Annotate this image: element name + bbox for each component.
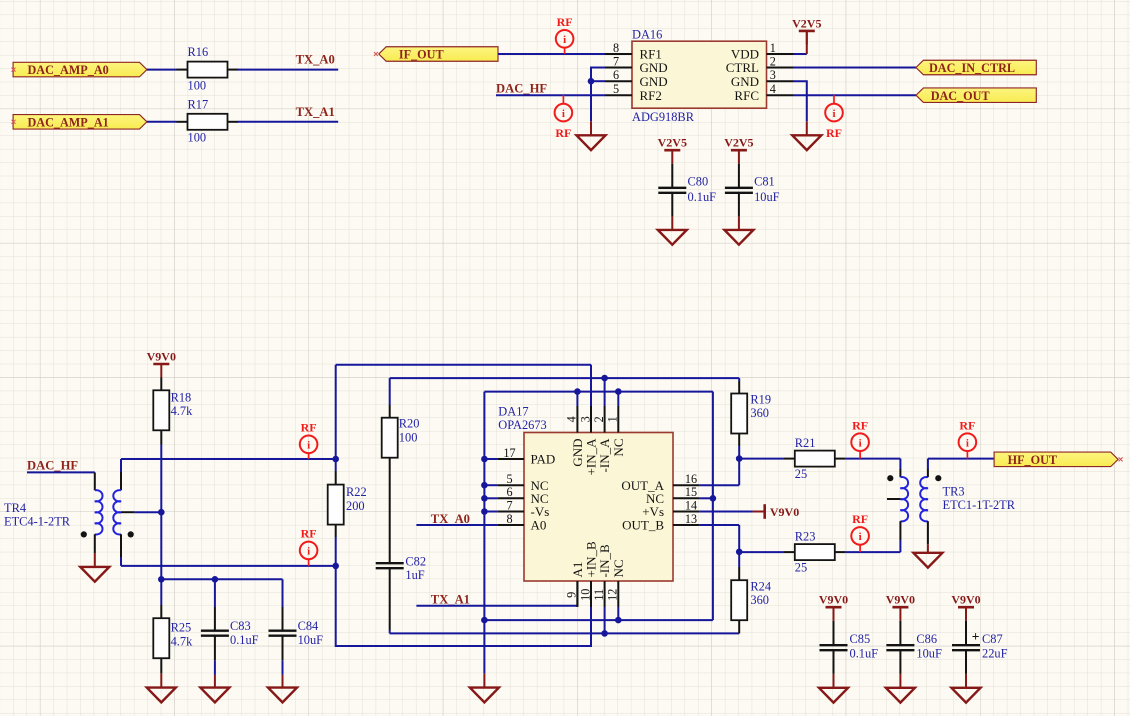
svg-text:25: 25	[795, 561, 807, 575]
wire pin10	[590, 607, 592, 646]
wire	[389, 378, 391, 405]
svg-text:C84: C84	[298, 619, 319, 633]
wire	[282, 660, 284, 675]
power V9V0	[819, 593, 848, 621]
ground at TR4	[80, 567, 109, 582]
svg-text:V9V0: V9V0	[819, 593, 848, 607]
svg-text:OPA2673: OPA2673	[498, 418, 546, 432]
RF directive on DAC_HF wire	[555, 95, 573, 140]
lead	[738, 381, 740, 394]
svg-text:i: i	[859, 531, 862, 543]
polarity dot TR4 secondary	[128, 531, 134, 537]
lead	[335, 471, 337, 485]
port origin marker	[374, 52, 378, 56]
svg-text:3: 3	[770, 68, 776, 82]
junction center-tap node	[158, 509, 165, 516]
pin	[835, 458, 846, 460]
pin 2 CTRL	[767, 67, 794, 69]
capacitor C87	[952, 645, 980, 650]
power V9V0	[147, 349, 176, 377]
lead	[160, 378, 162, 391]
wire	[335, 459, 337, 471]
lead	[671, 164, 673, 188]
lead	[738, 434, 740, 447]
pin 17 PAD	[498, 458, 524, 460]
capacitor C83	[201, 631, 229, 636]
lead	[282, 636, 284, 660]
junction	[481, 508, 488, 515]
junction pin1	[615, 388, 622, 395]
svg-text:V2V5: V2V5	[792, 16, 821, 30]
capacitor C86	[886, 645, 914, 650]
wire	[590, 121, 592, 135]
svg-text:R21: R21	[795, 436, 816, 450]
lead	[927, 544, 929, 553]
svg-text:DAC_HF: DAC_HF	[496, 81, 547, 95]
svg-text:V9V0: V9V0	[147, 349, 176, 363]
wire	[899, 459, 901, 469]
transformer TR4 secondary winding	[113, 490, 121, 534]
wire pin12	[617, 607, 619, 620]
svg-text:R19: R19	[750, 393, 771, 407]
pin 10 +IN_B	[590, 581, 592, 607]
wire	[576, 392, 578, 406]
svg-text:C86: C86	[916, 632, 937, 646]
pin 1 NC	[617, 406, 619, 433]
ground at R25	[147, 688, 176, 703]
RF directive on lower rail	[300, 527, 318, 566]
resistor R17	[188, 114, 228, 130]
lead	[738, 567, 740, 580]
svg-text:V2V5: V2V5	[658, 136, 687, 150]
wire	[120, 459, 122, 472]
power V2V5	[658, 136, 687, 164]
svg-text:16: 16	[685, 472, 697, 486]
wire	[147, 121, 177, 123]
svg-text:i: i	[832, 108, 835, 120]
svg-text:i: i	[966, 437, 969, 449]
resistor R18	[153, 390, 169, 430]
pin 11 -IN_B	[604, 581, 606, 607]
svg-text:8: 8	[506, 512, 512, 526]
svg-text:10uF: 10uF	[754, 190, 780, 204]
svg-text:RF: RF	[555, 126, 571, 140]
pin 5 NC	[498, 484, 524, 486]
lead	[899, 651, 901, 674]
lead	[899, 621, 901, 646]
lead	[214, 675, 216, 688]
RF directive on HF_OUT wire	[959, 418, 977, 458]
svg-text:22uF: 22uF	[982, 646, 1008, 660]
svg-text:10uF: 10uF	[916, 646, 942, 660]
junction OUT_A node	[736, 455, 743, 462]
svg-text:360: 360	[750, 406, 769, 420]
transformer TR4 pin	[94, 472, 96, 490]
junction OUT_B node	[736, 549, 743, 556]
capacitor C82	[376, 563, 404, 568]
lead	[389, 568, 391, 630]
wire	[846, 551, 901, 553]
pin 3 GND	[767, 80, 794, 82]
wire	[214, 579, 216, 607]
svg-text:25: 25	[795, 467, 807, 481]
pin 8 RF1	[605, 53, 632, 55]
wire rail to R22 top	[121, 458, 336, 460]
svg-text:DAC_AMP_A1: DAC_AMP_A1	[28, 115, 109, 129]
pin 6 NC	[498, 497, 524, 499]
svg-text:ADG918BR: ADG918BR	[632, 110, 695, 124]
wire	[389, 630, 391, 633]
svg-text:C83: C83	[230, 619, 251, 633]
ground at C80	[658, 230, 687, 245]
transformer TR3 pin	[899, 469, 901, 477]
port DAC_AMP_A1	[13, 115, 147, 130]
pin 9 A1	[576, 581, 578, 607]
svg-text:C82: C82	[405, 554, 426, 568]
capacitor C85	[820, 645, 848, 650]
lead	[389, 405, 391, 418]
capacitor C84	[269, 631, 297, 636]
svg-text:PAD: PAD	[531, 452, 556, 467]
svg-text:R23: R23	[795, 530, 816, 544]
wire R18 to divider node	[160, 445, 162, 580]
svg-text:14: 14	[685, 498, 697, 512]
power V9V0	[951, 593, 980, 621]
wire	[147, 69, 177, 71]
svg-text:0.1uF: 0.1uF	[850, 646, 879, 660]
svg-text:11: 11	[592, 589, 606, 601]
RF directive on R23 wire	[851, 512, 869, 552]
pin	[228, 121, 239, 123]
wire to R21	[739, 458, 784, 460]
lead	[833, 674, 835, 688]
svg-text:0.1uF: 0.1uF	[230, 633, 259, 647]
lead	[738, 193, 740, 216]
transformer TR3 pin	[927, 469, 929, 477]
svg-text:RF: RF	[959, 418, 975, 432]
lead	[965, 621, 967, 646]
wire OUT_A	[700, 484, 740, 486]
ground at C83	[200, 688, 229, 703]
svg-text:1uF: 1uF	[405, 568, 424, 582]
wire pin stub	[484, 511, 497, 513]
resistor R22	[328, 485, 344, 525]
transformer TR3 pin	[927, 521, 929, 544]
ground at DA16 pins 6-7	[577, 135, 606, 150]
svg-text:5: 5	[613, 82, 619, 96]
wire TX_A1	[238, 121, 338, 123]
wire TX_A0	[416, 524, 497, 526]
svg-text:RF: RF	[301, 420, 317, 434]
svg-text:i: i	[859, 437, 862, 449]
pin	[835, 551, 846, 553]
lead	[160, 658, 162, 673]
wire	[927, 459, 929, 469]
resistor R19	[731, 394, 747, 434]
ground at C84	[268, 688, 297, 703]
lead	[282, 607, 284, 631]
lead	[738, 164, 740, 188]
svg-text:+: +	[972, 629, 980, 644]
svg-text:200: 200	[346, 499, 365, 513]
svg-text:RFC: RFC	[734, 88, 759, 103]
svg-text:DAC_IN_CTRL: DAC_IN_CTRL	[929, 61, 1015, 75]
pin	[784, 551, 795, 553]
transformer TR3 secondary winding	[920, 477, 928, 521]
pin	[228, 69, 239, 71]
junction pin15	[710, 495, 717, 502]
svg-text:100: 100	[188, 78, 207, 92]
wire to R25	[160, 579, 162, 605]
svg-text:DA17: DA17	[498, 405, 528, 419]
lead	[160, 673, 162, 687]
svg-text:C85: C85	[850, 632, 871, 646]
port origin marker	[1119, 457, 1123, 461]
wire	[483, 620, 485, 673]
junction	[481, 482, 488, 489]
port IF_OUT	[379, 47, 498, 62]
polarity dot TR4 primary	[81, 531, 87, 537]
svg-text:NC: NC	[611, 439, 626, 457]
transformer TR3 primary winding	[900, 477, 908, 521]
lead	[738, 216, 740, 230]
svg-text:6: 6	[613, 68, 619, 82]
pin 12 NC	[617, 581, 619, 607]
ground at C81	[724, 230, 753, 245]
svg-text:RF: RF	[852, 418, 868, 432]
wire ground net under IC	[484, 619, 713, 621]
svg-text:i: i	[563, 34, 566, 46]
junction R22 top	[332, 456, 339, 463]
svg-text:6: 6	[506, 485, 512, 499]
wire +IN_A net	[336, 364, 591, 366]
wire to HF_OUT	[928, 458, 994, 460]
svg-text:1: 1	[606, 416, 620, 422]
junction pin12	[615, 617, 622, 624]
svg-text:ETC1-1T-2TR: ETC1-1T-2TR	[943, 498, 1016, 512]
wire	[738, 525, 740, 552]
wire pin6 stub	[591, 80, 605, 82]
power V9V0	[886, 593, 915, 621]
wire ground net vertical	[483, 392, 485, 620]
wire	[738, 552, 740, 567]
svg-text:DA16: DA16	[632, 27, 662, 41]
svg-text:4: 4	[565, 416, 579, 422]
ic DA16 body	[632, 41, 767, 108]
wire	[335, 537, 337, 566]
junction rail	[158, 576, 165, 583]
svg-text:8: 8	[613, 41, 619, 55]
wire	[806, 31, 808, 54]
lead R20 to C82	[389, 458, 391, 564]
resistor R23	[795, 544, 835, 560]
ground at TR3	[913, 553, 942, 568]
svg-text:IF_OUT: IF_OUT	[399, 48, 444, 62]
wire +Vs	[700, 511, 753, 513]
svg-text:i: i	[307, 440, 310, 452]
lead	[160, 605, 162, 618]
wire TX_A1	[416, 605, 577, 607]
ground at C85	[819, 688, 848, 703]
pin 8 A0	[498, 524, 524, 526]
transformer TR3 center tap stub	[887, 498, 900, 500]
wire RFC to port	[794, 94, 917, 96]
junction pin11	[601, 630, 608, 637]
pin 15 NC	[673, 497, 700, 499]
svg-text:RF: RF	[301, 527, 317, 541]
svg-text:RF: RF	[826, 126, 842, 140]
pin	[784, 458, 795, 460]
svg-text:100: 100	[399, 431, 418, 445]
wire	[806, 121, 808, 135]
wire OUT_B	[700, 524, 740, 526]
svg-text:A0: A0	[531, 518, 547, 533]
lead	[335, 525, 337, 537]
svg-text:5: 5	[506, 472, 512, 486]
ground at C87	[952, 688, 981, 703]
wire +IN_B loop	[336, 566, 591, 646]
op-amp DA17 body	[524, 433, 673, 582]
wire	[282, 579, 284, 607]
lead	[965, 651, 967, 674]
svg-text:TX_A1: TX_A1	[431, 593, 470, 607]
lead	[671, 193, 673, 216]
wire ground net right vertical	[712, 392, 714, 620]
ground at DA17	[470, 688, 499, 703]
resistor R25	[153, 618, 169, 658]
port HF_OUT	[994, 452, 1118, 467]
svg-text:C80: C80	[688, 175, 709, 189]
pin 4 RFC	[767, 94, 794, 96]
lead	[160, 430, 162, 444]
pin 6 GND	[605, 80, 632, 82]
svg-text:R25: R25	[171, 621, 192, 635]
pin 14 +Vs	[673, 511, 700, 513]
wire	[590, 365, 592, 406]
port DAC_AMP_A0	[13, 62, 147, 77]
svg-text:V9V0: V9V0	[886, 593, 915, 607]
svg-text:1: 1	[770, 41, 776, 55]
pin 7 GND	[605, 67, 632, 69]
svg-text:R22: R22	[346, 485, 367, 499]
svg-text:GND: GND	[640, 74, 668, 89]
junction	[481, 456, 488, 463]
wire	[899, 540, 901, 552]
wire	[738, 378, 740, 381]
junction	[588, 78, 595, 85]
RF directive on RF1 wire	[556, 15, 574, 54]
wire NC/GND net	[484, 391, 713, 393]
port origin marker	[12, 68, 16, 72]
wire bias rail	[161, 578, 282, 580]
capacitor C81	[725, 188, 753, 193]
lead	[94, 553, 96, 567]
svg-text:RF: RF	[852, 512, 868, 526]
lead	[282, 675, 284, 688]
svg-text:i: i	[562, 108, 565, 120]
wire	[846, 458, 901, 460]
lead	[483, 673, 485, 687]
resistor R21	[795, 451, 835, 467]
svg-text:R17: R17	[188, 97, 209, 111]
svg-text:DAC_OUT: DAC_OUT	[931, 89, 990, 103]
wire	[604, 378, 606, 406]
svg-text:13: 13	[685, 512, 697, 526]
svg-text:RF2: RF2	[640, 88, 662, 103]
junction pin4	[574, 388, 581, 395]
pin 16 OUT_A	[673, 484, 700, 486]
lead	[214, 607, 216, 631]
svg-text:C81: C81	[754, 175, 775, 189]
polarity dot TR3 secondary	[935, 475, 941, 481]
svg-text:V9V0: V9V0	[951, 593, 980, 607]
pin 1 VDD	[767, 53, 794, 55]
pin 7 -Vs	[498, 511, 524, 513]
wire pin3 to ground	[794, 81, 807, 121]
svg-text:NC: NC	[611, 559, 626, 577]
lead	[214, 636, 216, 660]
svg-text:100: 100	[188, 131, 207, 145]
svg-text:4: 4	[770, 82, 776, 96]
wire -IN_A net	[390, 377, 740, 379]
capacitor C80	[658, 188, 686, 193]
wire TX_A0	[238, 69, 338, 71]
transformer TR4 primary winding	[95, 490, 103, 534]
lead	[738, 620, 740, 633]
polarity dot TR3 primary	[887, 475, 893, 481]
wire pin stub	[484, 458, 497, 460]
svg-text:V2V5: V2V5	[724, 136, 753, 150]
wire	[738, 446, 740, 459]
svg-text:TR4: TR4	[4, 501, 26, 515]
wire	[617, 392, 619, 406]
svg-text:OUT_B: OUT_B	[622, 518, 664, 533]
transformer TR4 center tap pin	[121, 511, 134, 513]
pin	[177, 121, 188, 123]
lead	[671, 216, 673, 230]
svg-text:TR3: TR3	[943, 484, 965, 498]
svg-text:GND: GND	[731, 74, 759, 89]
pin 2 -IN_A	[604, 406, 606, 433]
pin 4 GND	[576, 406, 578, 433]
lead	[899, 674, 901, 688]
resistor R16	[188, 62, 228, 78]
svg-text:R20: R20	[399, 417, 420, 431]
ground at DA16 pin3	[792, 135, 821, 150]
svg-text:10: 10	[578, 589, 592, 601]
junction	[481, 495, 488, 502]
pin 9 extension	[576, 581, 578, 606]
transformer TR3 pin	[899, 521, 901, 540]
svg-text:2: 2	[592, 416, 606, 422]
power V2V5	[792, 16, 821, 44]
svg-text:7: 7	[613, 55, 619, 69]
RF directive on R21 wire	[851, 418, 869, 458]
pin	[177, 69, 188, 71]
transformer TR4 pin	[94, 534, 96, 553]
port origin marker	[12, 120, 16, 124]
wire DAC_HF to RF2	[496, 94, 605, 96]
svg-text:R16: R16	[188, 45, 209, 59]
svg-text:360: 360	[750, 593, 769, 607]
svg-text:i: i	[307, 546, 310, 558]
junction	[212, 576, 219, 583]
lead	[965, 674, 967, 688]
power V9V0 at +Vs	[753, 511, 765, 513]
wire pin7 to ground	[591, 68, 605, 122]
svg-text:C87: C87	[982, 632, 1003, 646]
wire -IN_B net	[390, 632, 740, 634]
